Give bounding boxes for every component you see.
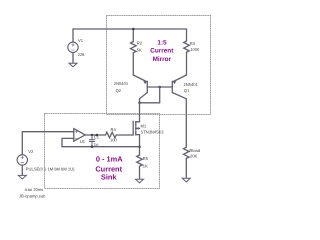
wire: base tie to Q2 collector	[140, 102, 160, 104]
node: Q2 collector junction	[138, 102, 141, 105]
wire: R2 to Q2 emitter	[132, 53, 134, 75]
wire: V1 top lead	[72, 29, 74, 42]
wire: Q2 base to center node	[147, 86, 159, 88]
node: base junction	[158, 86, 161, 89]
svg-text:V1: V1	[78, 38, 84, 43]
svg-text:20K: 20K	[190, 153, 198, 158]
wire: noninverting input from V2	[22, 131, 74, 133]
svg-text:.tran 20ms: .tran 20ms	[24, 187, 43, 192]
svg-text:1K: 1K	[143, 164, 148, 169]
wire: V2 bottom lead	[21, 165, 23, 175]
svg-text:1000: 1000	[190, 47, 200, 52]
MOSFET M1	[133, 121, 139, 135]
wire: Q1 collector down to Rload	[185, 99, 187, 147]
node: output/C1 junction	[91, 134, 94, 137]
svg-text:Sink: Sink	[101, 173, 117, 182]
svg-text:5K: 5K	[137, 47, 142, 52]
svg-text:100: 100	[110, 137, 118, 142]
ground (R5)	[136, 179, 144, 183]
svg-text:0 - 1mA: 0 - 1mA	[96, 155, 123, 164]
svg-text:M1: M1	[141, 124, 147, 129]
svg-text:Rload: Rload	[189, 148, 200, 153]
resistor R2	[131, 42, 137, 53]
svg-text:2N5401: 2N5401	[184, 82, 199, 87]
wire: R2 top lead	[132, 29, 134, 42]
wire: R4 to M1 gate	[116, 134, 133, 136]
wire: top supply rail	[73, 28, 187, 30]
wire: V1 bottom lead	[72, 53, 74, 64]
wire: Rload bottom lead	[185, 158, 187, 178]
ground (V1)	[69, 63, 77, 67]
svg-text:R2: R2	[137, 41, 143, 46]
svg-text:Mirror: Mirror	[153, 56, 172, 63]
wire: R5 bottom lead	[139, 166, 141, 179]
svg-text:C1: C1	[94, 134, 100, 139]
wire: V2 top lead	[21, 132, 23, 155]
svg-text:1n: 1n	[94, 142, 99, 147]
svg-text:Q2: Q2	[116, 88, 122, 93]
wire: Q1 base to center node	[160, 86, 173, 88]
wire: M1 source down	[139, 135, 141, 155]
voltage source V1	[68, 42, 78, 52]
svg-text:STN3N45K3: STN3N45K3	[141, 130, 165, 135]
node: rail-R2 junction	[132, 28, 135, 31]
ground (Rload)	[182, 178, 190, 182]
svg-text:1:5: 1:5	[157, 40, 167, 47]
wire: R3 to Q1 emitter	[186, 52, 188, 75]
capacitor C1	[89, 135, 94, 147]
resistor R3	[184, 41, 190, 52]
svg-text:U1: U1	[80, 139, 86, 144]
wire: Q2 collector down to M1 drain	[139, 99, 141, 122]
ground (V2)	[18, 175, 26, 179]
wire: feedback run	[62, 146, 140, 148]
resistor R4	[106, 132, 117, 138]
transistor Q2 (PNP 2N5401)	[133, 75, 147, 99]
dashed box: current mirror	[107, 16, 211, 115]
svg-text:R3: R3	[190, 41, 196, 46]
node: feedback/C1 junction	[91, 145, 94, 148]
node: source/feedback junction	[138, 145, 141, 148]
voltage source V2	[17, 155, 27, 165]
wire: R3 top lead	[186, 29, 188, 41]
node: output junction 2	[96, 134, 99, 137]
svg-text:JB-opamp.sub: JB-opamp.sub	[19, 193, 46, 198]
svg-text:Q1: Q1	[184, 88, 190, 93]
wire: base tie down	[159, 87, 161, 103]
svg-text:226: 226	[78, 52, 86, 57]
wire: op-amp output	[85, 134, 105, 136]
op-amp U1	[74, 129, 85, 142]
wire: inverting loop down	[61, 138, 63, 146]
svg-text:R5: R5	[143, 156, 149, 161]
wire: inverting input lead	[62, 137, 74, 139]
svg-text:Current: Current	[150, 48, 174, 55]
svg-text:V2: V2	[28, 149, 34, 154]
svg-text:PULSE(0 1 1M 8M 8M 1U): PULSE(0 1 1M 8M 8M 1U)	[26, 166, 75, 171]
transistor Q1 (PNP 2N5401)	[172, 75, 186, 99]
resistor Rload	[184, 147, 190, 158]
svg-text:R4: R4	[111, 127, 117, 132]
svg-text:2N5401: 2N5401	[114, 81, 129, 86]
dashed box: current sink	[45, 114, 160, 189]
resistor R5	[137, 155, 143, 166]
